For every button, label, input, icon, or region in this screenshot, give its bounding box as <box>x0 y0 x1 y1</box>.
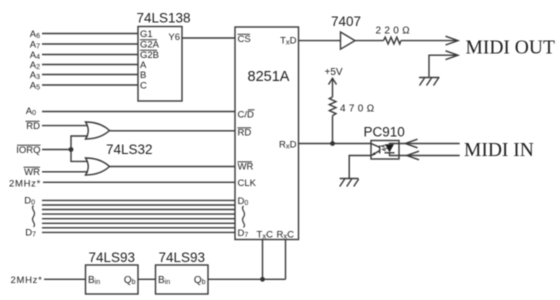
optocoupler PC910 U5 <box>371 141 399 160</box>
node IORQ input <box>16 145 40 156</box>
svg-text:D0: D0 <box>24 196 35 207</box>
svg-text:7407: 7407 <box>331 14 361 29</box>
svg-text:Bin: Bin <box>88 275 100 286</box>
svg-text:A5: A5 <box>30 81 40 92</box>
wire D5 <box>42 222 235 224</box>
svg-text:B: B <box>140 70 146 81</box>
arrow MIDI OUT signal <box>446 36 459 45</box>
svg-text:Qb: Qb <box>194 275 206 286</box>
wire IORQ to junction <box>42 149 71 151</box>
or-gate U3b 74LS32 <box>86 158 110 175</box>
svg-text:RxD: RxD <box>279 140 297 151</box>
wire A4 <box>42 54 138 56</box>
decoder 74LS138 U1 box <box>138 27 182 102</box>
svg-text:A3: A3 <box>30 70 40 81</box>
svg-text:A0: A0 <box>26 106 36 117</box>
svg-text:CLK: CLK <box>238 178 257 189</box>
node WR input <box>24 167 41 178</box>
svg-text:MIDI IN: MIDI IN <box>464 140 534 161</box>
wire MIDI IN top <box>399 143 460 145</box>
or-gate U3a 74LS32 <box>86 122 110 139</box>
wire TxC vertical <box>262 240 264 280</box>
ground MIDI OUT <box>419 78 440 86</box>
resistor R2 470ohm <box>329 97 336 116</box>
brace D0-D7 inside 8251A <box>242 206 244 228</box>
wire A6 <box>42 33 138 35</box>
svg-text:IORQ: IORQ <box>16 145 40 156</box>
counter 74LS93 U6 box <box>86 265 139 294</box>
wire MIDI OUT return <box>429 55 457 76</box>
svg-text:A6: A6 <box>30 29 40 40</box>
wire D7 <box>42 231 235 233</box>
wire R2 to RxD <box>332 116 334 144</box>
pin G2B <box>140 50 159 61</box>
svg-text:WR: WR <box>24 167 40 178</box>
pin C/D <box>238 110 255 121</box>
svg-text:74LS32: 74LS32 <box>106 142 153 157</box>
wire D0 <box>42 199 235 201</box>
wire A2 <box>42 64 138 66</box>
svg-text:G2A: G2A <box>140 40 160 51</box>
pin WR of 8251A <box>238 162 254 173</box>
svg-text:D7: D7 <box>238 228 249 239</box>
ground PC910 <box>340 179 359 187</box>
wire U7 to clocks <box>208 278 286 280</box>
wire R1 to MIDI OUT arrow <box>401 40 457 42</box>
svg-text:MIDI OUT: MIDI OUT <box>466 37 555 58</box>
wire U6 to U7 <box>138 278 156 280</box>
junction TxC clock <box>260 277 265 282</box>
resistor R1 220ohm <box>384 37 401 44</box>
junction RxD pullup <box>330 141 335 146</box>
svg-text:2MHz*: 2MHz* <box>10 275 42 286</box>
svg-text:74LS93: 74LS93 <box>89 250 136 265</box>
wire 2MHz to U6 <box>44 278 86 280</box>
arrow MIDI OUT return <box>446 51 459 60</box>
wire OR1 to RD pin <box>110 130 236 132</box>
wire Y6 to CS <box>182 37 235 39</box>
svg-text:PC910: PC910 <box>364 125 405 140</box>
wire A5 <box>42 84 138 86</box>
svg-text:220Ω: 220Ω <box>376 26 414 37</box>
wire PC910 to ground <box>349 156 371 179</box>
wire WR to OR2 <box>42 171 88 173</box>
wire RD to OR1 <box>42 125 88 127</box>
brace D0-D7 left <box>32 206 34 228</box>
wire MIDI IN bottom <box>399 155 460 157</box>
svg-text:8251A: 8251A <box>248 69 290 85</box>
buffer 7407 U4 <box>341 32 356 49</box>
svg-text:CS: CS <box>238 34 251 45</box>
pin CS <box>238 34 251 45</box>
svg-text:D0: D0 <box>238 196 249 207</box>
svg-text:RD: RD <box>238 128 252 139</box>
wire buffer to R1 <box>355 40 384 42</box>
svg-text:74LS138: 74LS138 <box>137 11 191 26</box>
wire D3 <box>42 213 235 215</box>
wire OR2 to WR pin <box>110 166 236 168</box>
wire TxD to buffer <box>299 40 341 42</box>
node RD input <box>26 121 41 132</box>
pin RD of 8251A <box>238 128 252 139</box>
svg-text:Y6: Y6 <box>168 32 180 43</box>
wire RxD to PC910 <box>299 143 372 145</box>
svg-text:RxC: RxC <box>277 230 295 241</box>
wire junction vertical <box>71 136 88 161</box>
svg-text:C/D: C/D <box>238 110 255 121</box>
svg-text:Qb: Qb <box>124 275 136 286</box>
svg-text:470Ω: 470Ω <box>340 104 378 115</box>
svg-text:TxC: TxC <box>257 230 274 241</box>
svg-text:74LS93: 74LS93 <box>159 250 206 265</box>
svg-text:RD: RD <box>26 121 40 132</box>
svg-text:G1: G1 <box>140 29 153 40</box>
arrow MIDI IN top <box>405 139 417 148</box>
wire A7 <box>42 43 138 45</box>
svg-text:TxD: TxD <box>280 36 297 47</box>
junction IORQ <box>69 147 74 152</box>
counter 74LS93 U7 box <box>156 265 209 294</box>
wire D1 <box>42 204 235 206</box>
svg-text:2MHz*: 2MHz* <box>9 179 41 190</box>
wire A3 <box>42 74 138 76</box>
pin G2A <box>140 40 160 51</box>
svg-text:WR: WR <box>238 162 254 173</box>
wire 2MHz to CLK <box>43 181 235 183</box>
wire RxC vertical <box>285 240 287 280</box>
svg-text:A7: A7 <box>30 40 40 51</box>
svg-text:+5V: +5V <box>325 67 343 78</box>
arrow +5V up <box>329 78 337 97</box>
svg-text:Bin: Bin <box>158 275 170 286</box>
wire D6 <box>42 227 235 229</box>
wire A0 to C/D <box>42 111 235 113</box>
wire D2 <box>42 209 235 211</box>
wire D4 <box>42 218 235 220</box>
arrow MIDI IN bottom <box>407 151 419 160</box>
svg-text:D7: D7 <box>25 228 36 239</box>
svg-text:C: C <box>140 81 147 92</box>
uart 8251A U2 box <box>235 27 299 240</box>
